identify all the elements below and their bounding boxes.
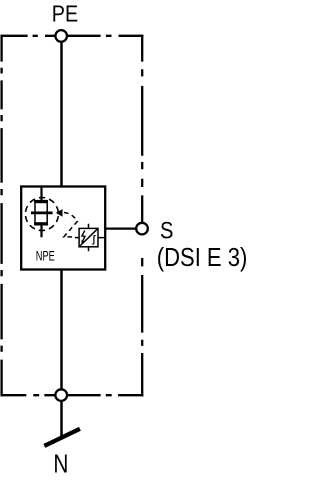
- svg-text:NPE: NPE: [36, 247, 55, 263]
- svg-text:N: N: [53, 451, 68, 479]
- svg-text:S: S: [160, 218, 173, 245]
- svg-text:(DSI E 3): (DSI E 3): [157, 242, 248, 272]
- svg-text:PE: PE: [52, 0, 78, 26]
